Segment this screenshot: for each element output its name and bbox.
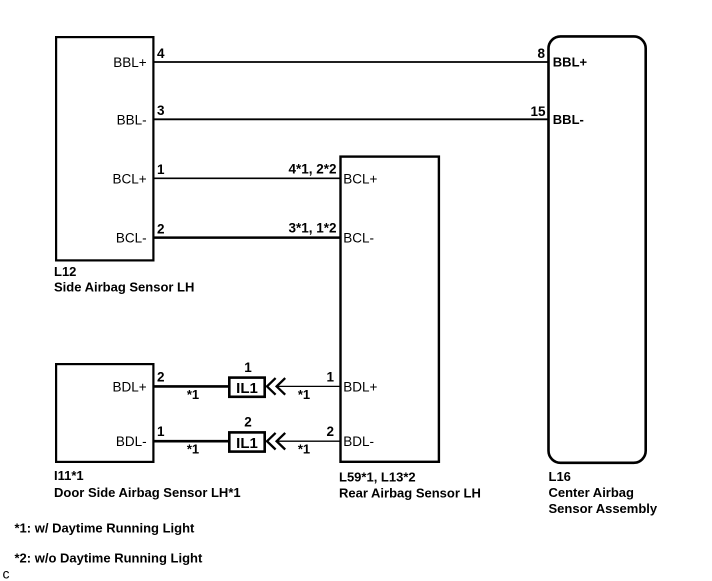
svg-text:3*1, 1*2: 3*1, 1*2: [288, 221, 336, 236]
svg-text:*1: w/ Daytime Running Light: *1: w/ Daytime Running Light: [15, 521, 196, 536]
svg-text:1: 1: [326, 369, 334, 384]
svg-text:BCL-: BCL-: [116, 231, 147, 246]
svg-text:BDL+: BDL+: [343, 379, 377, 394]
svg-text:BBL-: BBL-: [117, 112, 147, 127]
svg-text:4*1, 2*2: 4*1, 2*2: [288, 161, 336, 176]
svg-text:c: c: [3, 565, 10, 581]
svg-text:IL1: IL1: [236, 435, 258, 452]
svg-text:BDL+: BDL+: [112, 379, 146, 394]
svg-text:1: 1: [244, 360, 252, 375]
svg-text:1: 1: [157, 162, 165, 177]
svg-text:*1: *1: [187, 387, 199, 402]
svg-text:BBL+: BBL+: [553, 55, 588, 70]
svg-text:4: 4: [157, 46, 165, 61]
svg-text:2: 2: [157, 369, 165, 384]
svg-text:BCL+: BCL+: [343, 171, 377, 186]
svg-text:*2: w/o Daytime Running Light: *2: w/o Daytime Running Light: [15, 550, 203, 565]
svg-text:2: 2: [326, 424, 334, 439]
svg-text:*1: *1: [187, 442, 199, 457]
svg-text:BDL-: BDL-: [116, 434, 147, 449]
svg-text:*1: *1: [298, 387, 310, 402]
svg-text:2: 2: [157, 222, 165, 237]
svg-text:BDL-: BDL-: [343, 434, 374, 449]
svg-text:BCL-: BCL-: [343, 231, 374, 246]
svg-text:Side Airbag Sensor LH: Side Airbag Sensor LH: [54, 279, 194, 294]
svg-text:*1: *1: [298, 442, 310, 457]
svg-text:Sensor Assembly: Sensor Assembly: [549, 501, 658, 516]
svg-text:BCL+: BCL+: [112, 171, 146, 186]
svg-text:Center Airbag: Center Airbag: [549, 485, 635, 500]
svg-text:15: 15: [530, 104, 546, 119]
svg-text:IL1: IL1: [236, 380, 258, 397]
svg-text:L12: L12: [54, 264, 76, 279]
svg-text:1: 1: [157, 424, 165, 439]
svg-text:BBL-: BBL-: [553, 112, 584, 127]
svg-text:2: 2: [244, 415, 252, 430]
svg-text:I11*1: I11*1: [54, 468, 84, 483]
svg-text:3: 3: [157, 103, 165, 118]
svg-text:BBL+: BBL+: [113, 55, 147, 70]
svg-text:8: 8: [537, 46, 545, 61]
svg-text:Door Side Airbag Sensor LH*1: Door Side Airbag Sensor LH*1: [54, 485, 241, 500]
svg-text:Rear Airbag Sensor LH: Rear Airbag Sensor LH: [339, 485, 481, 500]
svg-text:L16: L16: [549, 469, 571, 484]
svg-text:L59*1, L13*2: L59*1, L13*2: [339, 470, 416, 485]
